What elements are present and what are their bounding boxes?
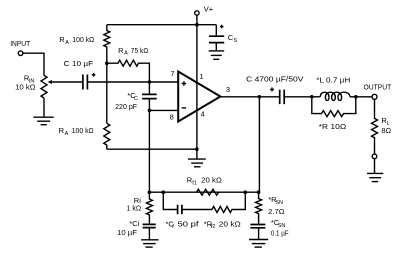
wire R_A junction down to bottom R_A bbox=[106, 63, 108, 123]
label C_S bbox=[228, 33, 238, 44]
load bottom terminal bbox=[372, 154, 377, 159]
wire C_f branch left drop bbox=[163, 192, 177, 209]
op-amp - symbol bbox=[182, 107, 186, 109]
node snubber junction bbox=[257, 190, 261, 194]
capacitor C 10 µF bbox=[83, 73, 96, 90]
wire L to output terminal bbox=[356, 96, 372, 98]
ground (Ci) bbox=[141, 240, 159, 247]
node feedback left bbox=[148, 190, 152, 194]
wire pot bottom to ground bbox=[43, 98, 45, 116]
svg-text:50 pf: 50 pf bbox=[178, 219, 200, 228]
label *R_f2 20 kΩ bbox=[204, 219, 241, 230]
wire bottom R_A to ground junction bbox=[107, 148, 197, 150]
wire op-amp output to C 4700uF bbox=[220, 96, 279, 98]
svg-text:SN: SN bbox=[275, 200, 283, 206]
svg-text:INPUT: INPUT bbox=[10, 39, 30, 48]
capacitor C_C 220 pF bbox=[142, 82, 157, 110]
svg-text:20 kΩ: 20 kΩ bbox=[219, 219, 241, 228]
ground (C_SN) bbox=[249, 240, 268, 248]
wire C 4700uF to L bbox=[284, 96, 312, 98]
svg-text:1 kΩ: 1 kΩ bbox=[127, 204, 142, 213]
svg-text:100 kΩ: 100 kΩ bbox=[72, 35, 94, 44]
label *R_SN bbox=[268, 195, 283, 206]
wire output junction down to snubber node bbox=[258, 97, 261, 192]
svg-text:8: 8 bbox=[170, 112, 174, 121]
ground (input pot) bbox=[33, 117, 53, 125]
svg-text:A: A bbox=[65, 131, 69, 137]
resistor R_L 8Ω bbox=[372, 100, 378, 154]
node output feedback junction bbox=[258, 95, 262, 99]
svg-text:10 kΩ: 10 kΩ bbox=[15, 83, 36, 92]
node V+ junction bbox=[195, 23, 199, 27]
svg-text:4: 4 bbox=[201, 110, 205, 119]
ground (op-amp) bbox=[188, 159, 206, 167]
svg-text:1: 1 bbox=[200, 72, 204, 81]
capacitor *C_SN 0.1 µF bbox=[250, 225, 265, 240]
label R_A 75 kΩ bbox=[118, 46, 149, 57]
label *C_C bbox=[127, 91, 138, 102]
resistor R_A 100 kΩ (top) bbox=[104, 25, 110, 64]
node R_A divider junction bbox=[105, 61, 109, 65]
resistor R_A 75 kΩ bbox=[107, 60, 150, 82]
svg-text:A: A bbox=[65, 40, 69, 46]
node C_f branch right bbox=[244, 190, 248, 194]
svg-text:100 kΩ: 100 kΩ bbox=[72, 126, 94, 135]
svg-text:2.7Ω: 2.7Ω bbox=[268, 207, 285, 216]
node L right junction bbox=[354, 95, 358, 99]
capacitor C_S bbox=[209, 25, 224, 51]
resistor R_f1 20 kΩ bbox=[197, 189, 219, 195]
wire top rail bbox=[107, 24, 217, 26]
wire C_f to R_f2 bbox=[182, 209, 212, 211]
node pin4 / ground junction bbox=[195, 147, 199, 151]
svg-text:*R 10Ω: *R 10Ω bbox=[319, 122, 347, 131]
label R_L bbox=[381, 116, 389, 127]
op-amp U1 bbox=[178, 72, 220, 122]
wire pot wiper to C 10uF bbox=[52, 81, 83, 83]
label *C_f 50 pf bbox=[166, 219, 200, 230]
input terminal bbox=[18, 51, 23, 56]
node - input junction bbox=[148, 109, 152, 113]
wire V+ terminal stub bbox=[196, 15, 198, 25]
wire feedback from - input down bbox=[148, 110, 150, 192]
resistor *R_f2 20 kΩ bbox=[212, 192, 245, 212]
label R_A 100 kΩ (top) bbox=[59, 35, 94, 46]
svg-text:C: C bbox=[134, 96, 138, 102]
svg-text:10 µF: 10 µF bbox=[117, 228, 137, 237]
capacitor *C_f 50 pf bbox=[178, 205, 182, 215]
svg-text:*L 0.7 µH: *L 0.7 µH bbox=[316, 75, 350, 84]
resistor Ri 1 kΩ bbox=[146, 192, 152, 224]
wire feedback rail bbox=[149, 191, 258, 193]
svg-text:0.1 µF: 0.1 µF bbox=[271, 229, 289, 238]
svg-text:f2: f2 bbox=[211, 224, 216, 230]
V+ terminal bbox=[195, 11, 199, 15]
label R_f1 20 kΩ bbox=[187, 176, 222, 187]
node + input junction bbox=[148, 80, 152, 84]
svg-text:20 kΩ: 20 kΩ bbox=[201, 176, 222, 185]
svg-text:V+: V+ bbox=[204, 5, 214, 14]
svg-text:A: A bbox=[124, 51, 128, 57]
resistor *R 10Ω (parallel with L) bbox=[312, 97, 356, 117]
svg-text:C 4700 µF/50V: C 4700 µF/50V bbox=[246, 74, 303, 83]
capacitor *Ci 10 µF bbox=[143, 224, 156, 239]
op-amp + symbol bbox=[182, 81, 186, 85]
wire input terminal to pot top bbox=[23, 53, 44, 75]
svg-text:S: S bbox=[234, 38, 238, 44]
svg-text:220 pF: 220 pF bbox=[115, 102, 137, 111]
wire load terminal to ground bbox=[374, 159, 376, 173]
inductor L 0.7 µH bbox=[312, 92, 356, 100]
resistor *R_SN 2.7Ω bbox=[256, 192, 262, 224]
node C_f branch left bbox=[162, 190, 166, 194]
svg-text:OUTPUT: OUTPUT bbox=[364, 82, 392, 91]
ground (load) bbox=[367, 173, 383, 181]
svg-text:3: 3 bbox=[226, 85, 230, 94]
wire V+ rail down through op-amp (pins 1,4) bbox=[196, 25, 198, 150]
ground (C_S) bbox=[209, 51, 225, 59]
svg-text:7: 7 bbox=[170, 69, 174, 78]
label R_A 100 kΩ (bottom) bbox=[59, 126, 94, 137]
label *C_SN bbox=[271, 218, 285, 229]
output terminal bbox=[372, 94, 377, 99]
wire ground junction stub bbox=[196, 149, 198, 158]
svg-text:75 kΩ: 75 kΩ bbox=[131, 46, 149, 55]
svg-text:*Ci: *Ci bbox=[129, 219, 139, 228]
svg-text:8Ω: 8Ω bbox=[381, 126, 391, 135]
node L left junction bbox=[310, 95, 314, 99]
capacitor C 4700 µF/50V bbox=[270, 88, 284, 105]
potentiometer R_IN bbox=[41, 75, 52, 98]
wire C 10uF to op-amp + input bbox=[87, 81, 178, 83]
resistor R_A 100 kΩ (bottom) bbox=[104, 123, 110, 149]
svg-text:C 10 µF: C 10 µF bbox=[64, 59, 94, 68]
wire - input bbox=[149, 109, 178, 111]
svg-text:f1: f1 bbox=[192, 181, 197, 187]
